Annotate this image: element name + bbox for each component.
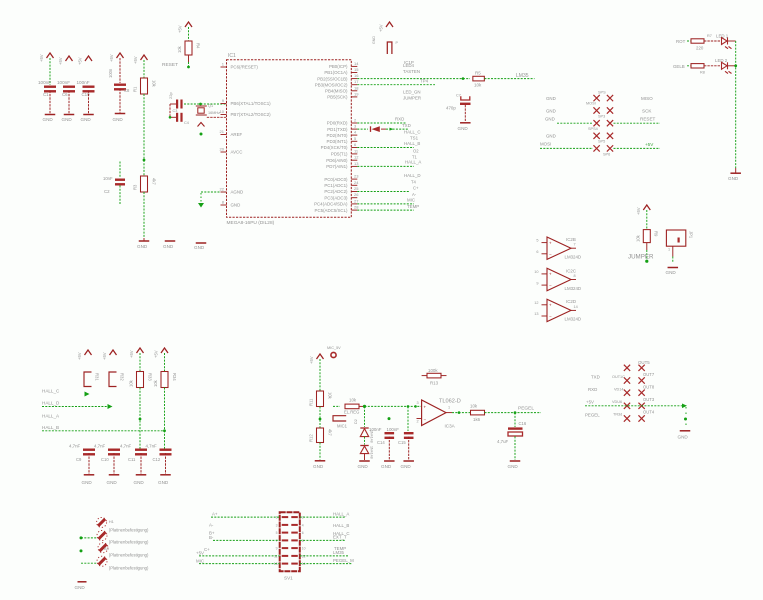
svg-text:AREF: AREF bbox=[231, 132, 243, 137]
svg-text:AGND: AGND bbox=[231, 190, 244, 195]
svg-text:RXD: RXD bbox=[395, 117, 404, 122]
power VCC +5V bbox=[185, 22, 192, 27]
resistor R10 10k bbox=[345, 404, 359, 409]
svg-text:18: 18 bbox=[354, 85, 359, 90]
svg-text:C1: C1 bbox=[43, 92, 49, 97]
svg-text:H1: H1 bbox=[109, 519, 115, 524]
svg-text:PEGEL: PEGEL bbox=[585, 412, 600, 417]
svg-text:PC2(ADC2): PC2(ADC2) bbox=[324, 189, 348, 194]
node bbox=[199, 103, 202, 106]
connector SV1 pins row 6 bbox=[282, 555, 289, 557]
svg-text:−: − bbox=[424, 417, 427, 422]
wire bbox=[319, 443, 321, 460]
pin 10 PB7(XTAL2/TOSC2) bbox=[221, 114, 227, 116]
wire XTAL2 bbox=[207, 116, 227, 118]
node divider mid bbox=[319, 418, 322, 421]
svg-text:1: 1 bbox=[448, 406, 450, 410]
node stray bbox=[388, 417, 391, 420]
svg-text:PD7(AIN1): PD7(AIN1) bbox=[326, 164, 348, 169]
wire JP1 to GND bbox=[672, 246, 674, 257]
svg-text:PB7(XTAL2/TOSC2): PB7(XTAL2/TOSC2) bbox=[231, 112, 272, 117]
svg-text:+5V: +5V bbox=[196, 551, 204, 556]
jumper JP1 box bbox=[666, 230, 685, 246]
wire to JUMPER net bbox=[646, 243, 648, 250]
pin 25 PC2(ADC2) bbox=[351, 191, 357, 193]
node bbox=[514, 411, 517, 414]
wire PD4 HALL_B bbox=[357, 147, 414, 149]
wire bbox=[704, 40, 721, 42]
ground bbox=[359, 460, 370, 462]
svg-text:C14: C14 bbox=[377, 440, 385, 445]
pin 18 PB4(MISO) bbox=[351, 90, 357, 92]
svg-text:OUT3: OUT3 bbox=[643, 397, 655, 402]
pin 2 PD0(RXD) bbox=[351, 122, 357, 124]
svg-text:GND: GND bbox=[62, 117, 73, 122]
pin 24 PC1(ADC1) bbox=[351, 184, 357, 186]
svg-text:470p: 470p bbox=[446, 106, 456, 111]
node bbox=[645, 260, 648, 263]
svg-text:100nF: 100nF bbox=[57, 80, 70, 85]
diode D2 bbox=[360, 427, 368, 429]
mounting hole H4 bbox=[97, 556, 107, 566]
svg-text:B-: B- bbox=[209, 535, 214, 540]
pin 22 AGND bbox=[221, 191, 227, 193]
svg-text:12: 12 bbox=[534, 301, 538, 305]
ground bbox=[668, 267, 679, 269]
svg-text:D2: D2 bbox=[354, 419, 358, 424]
svg-text:R31: R31 bbox=[95, 373, 100, 381]
svg-text:HALL_C: HALL_C bbox=[404, 129, 421, 134]
pin 13 PD7(AIN1) bbox=[351, 165, 357, 167]
svg-text:SP3: SP3 bbox=[598, 115, 605, 119]
svg-text:+5V: +5V bbox=[39, 54, 44, 62]
svg-text:PD5(T1): PD5(T1) bbox=[331, 152, 348, 157]
pin 17 PB3(MOSI/OC2) bbox=[351, 84, 357, 86]
wire bbox=[139, 353, 141, 372]
svg-text:LM35: LM35 bbox=[333, 550, 345, 555]
svg-text:MISO: MISO bbox=[641, 96, 653, 101]
svg-text:10k: 10k bbox=[349, 398, 357, 403]
svg-text:AVCC: AVCC bbox=[231, 150, 243, 155]
connector SV1 pins row 5 bbox=[282, 547, 289, 549]
svg-text:RESET: RESET bbox=[162, 62, 178, 68]
svg-text:21: 21 bbox=[220, 129, 225, 134]
svg-text:10k: 10k bbox=[470, 404, 478, 409]
pin 26 PC3(ADC3) bbox=[351, 197, 357, 199]
pin 27 PC4(ADC4/SDA) bbox=[351, 203, 357, 205]
capacitor C16 4,7uF polarized bbox=[514, 413, 516, 427]
diode D3 bbox=[360, 445, 368, 447]
pin 12 PD6(AIN0) bbox=[351, 159, 357, 161]
svg-text:10k: 10k bbox=[636, 234, 641, 242]
svg-text:TP4: TP4 bbox=[420, 79, 429, 84]
wire PC5 TEMP bbox=[357, 209, 414, 211]
svg-text:GND: GND bbox=[163, 244, 174, 249]
svg-text:PD2(INT0): PD2(INT0) bbox=[327, 133, 349, 138]
svg-text:C+: C+ bbox=[413, 186, 419, 191]
wire AGND bbox=[201, 191, 227, 193]
svg-text:4,7nF: 4,7nF bbox=[94, 444, 106, 449]
svg-text:10: 10 bbox=[220, 109, 225, 114]
ground bbox=[315, 460, 326, 462]
svg-text:GND: GND bbox=[381, 464, 392, 469]
svg-text:JP1: JP1 bbox=[689, 231, 694, 239]
wire bbox=[485, 412, 542, 414]
svg-text:HALL_B: HALL_B bbox=[42, 425, 59, 430]
resistor R8 220 bbox=[691, 64, 704, 68]
svg-text:13: 13 bbox=[354, 161, 359, 166]
svg-text:+5V: +5V bbox=[58, 57, 63, 65]
pin 23 PC0(ADC0) bbox=[351, 178, 357, 180]
svg-text:VD14: VD14 bbox=[614, 388, 624, 392]
op-amp IC2C bbox=[547, 268, 571, 290]
svg-text:GND: GND bbox=[75, 585, 86, 590]
wire to C2 bbox=[119, 162, 121, 178]
svg-text:+5V: +5V bbox=[109, 54, 114, 62]
svg-text:PD3(INT1): PD3(INT1) bbox=[327, 139, 349, 144]
svg-text:GND: GND bbox=[82, 480, 93, 485]
ground bbox=[143, 238, 145, 241]
svg-text:IC2D: IC2D bbox=[566, 299, 576, 304]
svg-text:EXT_T: EXT_T bbox=[333, 535, 347, 540]
power VCC col4 bbox=[161, 348, 168, 353]
pin 6 PD4(XCK/T0) bbox=[351, 147, 357, 149]
svg-text:100nF: 100nF bbox=[77, 80, 90, 85]
svg-text:PC4(ADC4/SDA): PC4(ADC4/SDA) bbox=[314, 202, 348, 207]
svg-text:IC3A: IC3A bbox=[445, 424, 456, 429]
svg-text:(Platinenbefestigung): (Platinenbefestigung) bbox=[109, 540, 149, 545]
svg-text:GND: GND bbox=[508, 464, 519, 469]
svg-text:R32: R32 bbox=[120, 373, 125, 381]
resistor R5 10k bbox=[473, 76, 485, 81]
svg-text:PD1(TXD): PD1(TXD) bbox=[327, 127, 348, 132]
svg-text:IC2B: IC2B bbox=[566, 237, 576, 242]
wire PB3 TAST net bbox=[357, 84, 435, 86]
node on col3 bbox=[139, 418, 142, 421]
wire minus input bbox=[417, 418, 422, 420]
svg-text:GND: GND bbox=[372, 36, 376, 44]
ground bbox=[78, 581, 87, 583]
svg-text:+5V: +5V bbox=[586, 400, 594, 405]
svg-text:VDU6: VDU6 bbox=[612, 400, 622, 404]
connector ISP pin crosses column 1 bbox=[593, 95, 599, 101]
svg-text:27: 27 bbox=[354, 198, 359, 203]
wire bbox=[319, 407, 321, 431]
pin 4 PD2(INT0) bbox=[351, 134, 357, 136]
svg-text:PD0(RXD): PD0(RXD) bbox=[327, 121, 348, 126]
wire row7 right PEGEL_M bbox=[300, 563, 352, 565]
resistor R9 10k bbox=[643, 230, 650, 243]
pin 19 PB5(SCK) bbox=[351, 96, 357, 98]
svg-text:25: 25 bbox=[354, 186, 359, 191]
connector SV1 pins row 4 bbox=[282, 539, 289, 541]
svg-text:JUMPER: JUMPER bbox=[628, 254, 654, 261]
pin 15 PB1(OC1A) bbox=[351, 72, 357, 74]
node bbox=[169, 116, 172, 119]
wire bbox=[728, 40, 736, 42]
svg-text:23: 23 bbox=[354, 174, 359, 179]
svg-text:HALL_D: HALL_D bbox=[42, 401, 60, 406]
wire bbox=[143, 60, 145, 78]
svg-text:SPS: SPS bbox=[598, 91, 606, 95]
svg-text:A-: A- bbox=[209, 523, 214, 528]
wire to RESET net bbox=[188, 55, 190, 62]
svg-text:GND: GND bbox=[107, 480, 118, 485]
wire XTAL1 bbox=[184, 103, 227, 105]
svg-text:TL062-D: TL062-D bbox=[439, 399, 461, 405]
svg-text:SV1: SV1 bbox=[284, 576, 293, 581]
pin 9 PB6(XTAL1/TOSC1) bbox=[221, 103, 227, 105]
resistor R34 bbox=[161, 372, 168, 388]
svg-text:GND: GND bbox=[43, 117, 54, 122]
svg-text:4,7nF: 4,7nF bbox=[69, 444, 81, 449]
svg-text:HALL_A: HALL_A bbox=[42, 414, 60, 419]
svg-text:220: 220 bbox=[696, 46, 704, 51]
svg-text:+5V: +5V bbox=[636, 207, 641, 215]
wire RESET from ISP bbox=[614, 122, 661, 124]
mounting hole H3 bbox=[98, 543, 108, 553]
svg-text:GELB: GELB bbox=[673, 64, 685, 69]
svg-text:PEGEL_M: PEGEL_M bbox=[333, 558, 354, 563]
svg-text:GND: GND bbox=[546, 134, 556, 139]
svg-text:4: 4 bbox=[302, 523, 304, 527]
wire HALL_A row1 right bbox=[300, 516, 346, 518]
svg-text:T4: T4 bbox=[411, 179, 417, 184]
svg-text:+5V: +5V bbox=[379, 24, 384, 32]
svg-text:LM324D: LM324D bbox=[565, 286, 582, 291]
svg-text:TR3d: TR3d bbox=[613, 413, 622, 417]
svg-text:TXD: TXD bbox=[402, 123, 411, 128]
svg-text:3: 3 bbox=[417, 401, 419, 405]
node junction LED2/GND line bbox=[734, 64, 737, 67]
power VCC col2 bbox=[110, 350, 117, 355]
capacitor C15 100nF wire bbox=[407, 406, 409, 431]
svg-text:+5V: +5V bbox=[133, 56, 138, 64]
svg-text:6: 6 bbox=[302, 531, 304, 535]
svg-text:12: 12 bbox=[354, 155, 359, 160]
svg-text:EL.REG: EL.REG bbox=[344, 410, 359, 415]
svg-text:ROT: ROT bbox=[676, 39, 686, 44]
connector OUT pin crosses column 1 bbox=[624, 365, 630, 371]
svg-text:R4: R4 bbox=[196, 43, 201, 49]
svg-text:TEMP: TEMP bbox=[407, 204, 419, 209]
ground bbox=[680, 430, 691, 432]
svg-text:+5V: +5V bbox=[102, 352, 107, 360]
connector SV1 box bbox=[280, 512, 300, 571]
wire bbox=[143, 94, 145, 176]
svg-text:GND: GND bbox=[358, 464, 369, 469]
ground bbox=[165, 240, 176, 242]
svg-text:R33: R33 bbox=[148, 373, 153, 381]
node bbox=[407, 405, 410, 408]
node bbox=[462, 77, 465, 80]
wire stub caps left bbox=[170, 103, 176, 105]
svg-text:1: 1 bbox=[668, 248, 670, 252]
wire to opamp + input bbox=[365, 405, 422, 407]
crystal Q1 bbox=[198, 108, 204, 113]
svg-text:C4: C4 bbox=[184, 121, 189, 125]
power VCC +5V bbox=[643, 205, 650, 210]
svg-text:10k: 10k bbox=[474, 83, 482, 88]
node divider junction bbox=[143, 159, 146, 162]
svg-text:LM324D: LM324D bbox=[565, 255, 582, 260]
svg-text:8: 8 bbox=[574, 274, 576, 278]
svg-text:10k: 10k bbox=[328, 392, 333, 400]
svg-text:R7: R7 bbox=[707, 34, 712, 38]
svg-text:10k: 10k bbox=[129, 379, 134, 387]
diode D1 bbox=[370, 126, 372, 132]
svg-text:R34: R34 bbox=[172, 373, 177, 381]
pin 11 PD5(T1) bbox=[351, 153, 357, 155]
pin 5 PD3(INT1) bbox=[351, 140, 357, 142]
svg-text:HALL_A: HALL_A bbox=[333, 511, 349, 516]
svg-text:R8: R8 bbox=[700, 71, 705, 75]
connector SV1 pins row 2 bbox=[282, 524, 289, 526]
svg-text:SP5: SP5 bbox=[598, 140, 605, 144]
wire bbox=[188, 27, 190, 41]
svg-text:+: + bbox=[424, 404, 427, 409]
svg-text:+: + bbox=[549, 272, 552, 277]
svg-text:1N4148: 1N4148 bbox=[370, 446, 374, 459]
svg-text:19: 19 bbox=[354, 91, 359, 96]
arrow to GND below crystal bbox=[198, 123, 205, 127]
svg-text:PC6(/RESET): PC6(/RESET) bbox=[231, 65, 259, 70]
svg-text:R12: R12 bbox=[309, 434, 314, 442]
svg-text:PB2(SS/OC1B): PB2(SS/OC1B) bbox=[317, 76, 348, 81]
svg-text:MIC: MIC bbox=[196, 558, 204, 563]
svg-text:GND: GND bbox=[546, 96, 556, 101]
svg-text:3: 3 bbox=[276, 523, 278, 527]
wire bbox=[364, 454, 366, 460]
svg-text:PD4(XCK/T0): PD4(XCK/T0) bbox=[321, 145, 348, 150]
svg-text:4,7uF: 4,7uF bbox=[497, 439, 509, 444]
svg-text:HALL_B: HALL_B bbox=[333, 523, 349, 528]
svg-text:OUT1C: OUT1C bbox=[612, 375, 625, 379]
svg-text:R11: R11 bbox=[309, 398, 314, 406]
IC U1 MEGA8 box bbox=[227, 60, 352, 218]
svg-text:GND: GND bbox=[81, 117, 92, 122]
pin 8 GND bbox=[221, 204, 227, 206]
connector SV1 pins row 7 bbox=[282, 563, 289, 565]
svg-text:10: 10 bbox=[534, 270, 538, 274]
wire bbox=[386, 128, 409, 130]
svg-text:PD6(AIN0): PD6(AIN0) bbox=[326, 158, 348, 163]
svg-text:15: 15 bbox=[354, 67, 359, 72]
op-amp IC2D bbox=[547, 299, 571, 321]
svg-text:6: 6 bbox=[536, 250, 538, 254]
svg-text:GND: GND bbox=[231, 203, 241, 208]
svg-text:TASTEN: TASTEN bbox=[403, 69, 420, 74]
power VCC +5V bbox=[317, 354, 324, 359]
svg-text:10nF: 10nF bbox=[103, 176, 113, 181]
svg-text:PC0(ADC0): PC0(ADC0) bbox=[324, 177, 348, 182]
svg-text:100nF: 100nF bbox=[369, 427, 382, 432]
wire MOSI to ISP bbox=[540, 147, 593, 149]
wire output bbox=[446, 412, 452, 414]
svg-text:+: + bbox=[549, 303, 552, 308]
pin 14 PB0(ICP) bbox=[351, 65, 357, 67]
wire bbox=[319, 359, 321, 391]
svg-text:C8: C8 bbox=[124, 88, 130, 93]
svg-text:SPS4: SPS4 bbox=[588, 127, 598, 131]
svg-text:5: 5 bbox=[536, 239, 538, 243]
pin 1 PC6(/RESET) bbox=[221, 66, 227, 68]
svg-text:(Platinenbefestigung): (Platinenbefestigung) bbox=[109, 528, 149, 533]
svg-text:GND: GND bbox=[313, 464, 324, 469]
svg-text:GND: GND bbox=[113, 117, 124, 122]
svg-text:C10: C10 bbox=[101, 457, 109, 462]
wire bbox=[484, 78, 534, 80]
svg-text:SP6: SP6 bbox=[603, 153, 610, 157]
svg-text:MIC1: MIC1 bbox=[337, 424, 348, 429]
svg-text:100nF: 100nF bbox=[387, 427, 400, 432]
wire GND to ISP bbox=[557, 122, 593, 124]
svg-text:10k: 10k bbox=[152, 80, 157, 88]
svg-text:20: 20 bbox=[220, 147, 225, 152]
wire to H2 bbox=[81, 537, 97, 539]
resistor R7 220 bbox=[691, 39, 704, 43]
svg-text:24: 24 bbox=[354, 180, 359, 185]
capacitor C10 with VCC and GND bbox=[85, 56, 92, 61]
svg-text:GND: GND bbox=[194, 245, 205, 250]
svg-text:(Platinenbefestigung): (Platinenbefestigung) bbox=[109, 566, 149, 571]
power VCC col3 bbox=[137, 348, 144, 353]
svg-text:R3: R3 bbox=[133, 184, 138, 190]
svg-text:4k7: 4k7 bbox=[152, 178, 157, 185]
wire bbox=[514, 436, 516, 460]
svg-text:GND: GND bbox=[678, 435, 689, 440]
wire col3 down bbox=[139, 388, 141, 449]
svg-text:GND: GND bbox=[666, 270, 677, 275]
wire down to GND bbox=[685, 407, 687, 427]
wire bbox=[359, 405, 365, 407]
connector OUT pin crosses column 2 bbox=[638, 365, 644, 371]
op-amp IC2B bbox=[547, 237, 571, 259]
svg-text:1k6: 1k6 bbox=[473, 417, 481, 422]
resistor R11 10k bbox=[317, 391, 324, 407]
wire bbox=[728, 65, 736, 67]
svg-text:SCK: SCK bbox=[642, 109, 652, 114]
svg-text:PB0(ICP): PB0(ICP) bbox=[329, 64, 348, 69]
svg-text:C2: C2 bbox=[104, 189, 110, 194]
svg-text:100k: 100k bbox=[428, 368, 438, 373]
wire mic to R10 bbox=[333, 405, 340, 407]
wire bbox=[364, 437, 366, 445]
svg-text:10: 10 bbox=[302, 547, 306, 551]
resistor R12 bbox=[317, 428, 324, 443]
svg-text:HALL_D: HALL_D bbox=[404, 173, 421, 178]
svg-text:PC1(ADC1): PC1(ADC1) bbox=[324, 183, 348, 188]
capacitor C6 with VCC and GND bbox=[66, 56, 73, 61]
ground bbox=[735, 168, 737, 173]
wire PD7 HALL_A bbox=[357, 165, 414, 167]
svg-text:RESET: RESET bbox=[640, 117, 656, 122]
mounting hole H1 bbox=[97, 517, 107, 527]
svg-text:PB1(OC1A): PB1(OC1A) bbox=[324, 70, 348, 75]
wire +5V from ISP bbox=[614, 147, 661, 149]
svg-text:−: − bbox=[549, 252, 552, 257]
svg-text:C7: C7 bbox=[456, 94, 461, 98]
svg-text:TS1: TS1 bbox=[410, 136, 419, 141]
ground bbox=[510, 460, 521, 462]
svg-text:10k: 10k bbox=[177, 45, 182, 53]
svg-text:14: 14 bbox=[354, 61, 359, 66]
svg-text:22p: 22p bbox=[168, 92, 173, 99]
svg-text:GND: GND bbox=[137, 244, 148, 249]
svg-text:OUT5: OUT5 bbox=[638, 360, 650, 365]
svg-text:14: 14 bbox=[574, 305, 578, 309]
wire to H4 bbox=[81, 562, 97, 564]
